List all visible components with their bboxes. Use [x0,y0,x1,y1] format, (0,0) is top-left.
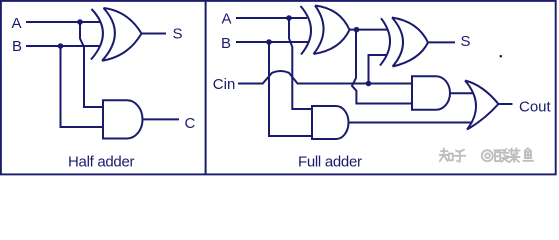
watermark glyph suan [494,149,508,162]
xor gate U1 (half adder XOR) back curve [91,9,103,60]
wire XOR1 out drop to AND1 (jog over Cin) [352,30,412,104]
node A junction (half adder) [77,19,83,25]
and gate U2 (half adder AND) [103,100,143,138]
xor gate U1 body [102,8,142,61]
watermark glyph at-sign [482,150,493,161]
svg-text:B: B [12,38,22,55]
wire XOR1 out to XOR2 top input [350,29,388,31]
or gate U7 (Cout OR) [465,81,498,130]
svg-text:Cin: Cin [213,76,236,93]
border frame [1,1,556,175]
wire B (full adder input B) [236,41,308,43]
xor gate U3 body [314,6,350,55]
wire A drop to AND (with jog over B) [80,22,103,107]
svg-text:S: S [173,26,183,43]
svg-text:A: A [222,11,232,28]
wire Cin to XOR2 lower input [369,55,387,84]
node A junction (full adder) [286,15,292,21]
svg-text:S: S [461,33,471,50]
wire S output (half adder) [142,33,167,35]
watermark glyph cai [509,148,520,162]
watermark glyph yu [523,148,533,161]
and gate U6 (lower AND) [312,106,349,139]
svg-text:B: B [221,35,231,52]
wire Cout output [498,103,512,105]
wire B drop to AND2 [269,42,312,136]
wire B (half adder input B) [26,45,100,47]
svg-text:A: A [12,15,22,32]
svg-text:Cout: Cout [519,99,552,116]
wire A (half adder input A) [26,21,101,23]
wire B drop to AND [61,46,104,127]
divider [205,1,207,174]
xor gate U3 (A xor B) back curve [301,6,312,55]
watermark glyph zhi [440,148,453,161]
wire AND2 out to OR [349,122,473,124]
xor gate U4 (sum XOR) back curve [380,18,390,65]
watermark glyph hu [455,150,466,162]
wire A drop to AND2 (with jog over B) [289,18,312,109]
node B junction (half adder) [58,43,64,49]
node B junction (full adder) [266,39,272,45]
wire S output (full adder) [428,41,455,43]
and gate U5 (upper AND) [412,76,450,110]
svg-text:Half adder: Half adder [68,153,135,170]
wire Cin with hop over verticals [238,71,412,83]
wire A (full adder input A) [236,17,307,19]
xor gate U4 body [392,18,428,67]
svg-text:Full adder: Full adder [298,153,362,170]
wire C output (half adder) [143,118,180,120]
wire AND1 out to OR [450,92,473,94]
stray dot [500,55,502,57]
node XOR1-out junction [354,27,360,33]
svg-text:C: C [185,115,196,132]
node Cin junction [366,81,372,87]
